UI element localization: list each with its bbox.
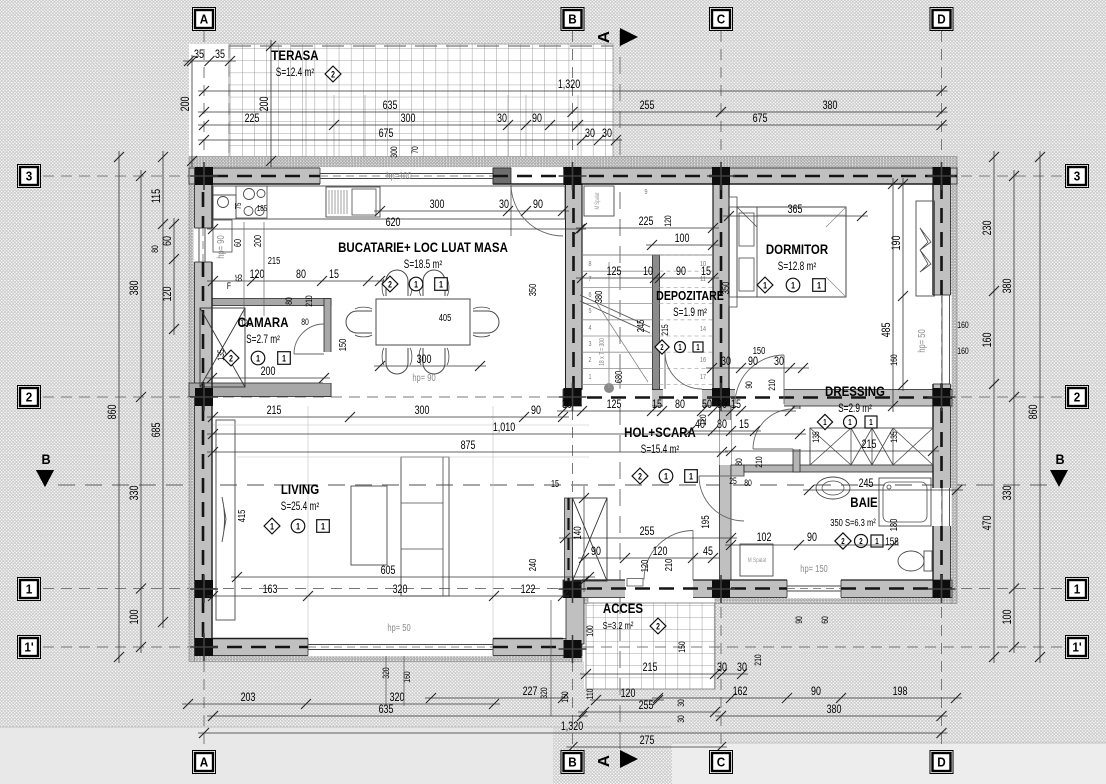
svg-text:675: 675 [379, 127, 394, 141]
svg-text:90: 90 [532, 112, 542, 126]
svg-text:DEPOZITARE: DEPOZITARE [656, 289, 724, 303]
svg-text:1: 1 [296, 521, 300, 531]
svg-text:S=2.9 m²: S=2.9 m² [838, 403, 872, 416]
svg-text:120: 120 [663, 215, 673, 227]
svg-text:160: 160 [957, 320, 969, 330]
svg-text:1: 1 [823, 417, 826, 427]
svg-text:D: D [937, 755, 946, 770]
svg-text:1: 1 [321, 521, 325, 531]
svg-text:1: 1 [256, 353, 260, 363]
svg-text:DRESSING: DRESSING [825, 384, 885, 399]
svg-text:160: 160 [560, 691, 570, 703]
svg-text:17: 17 [700, 373, 706, 381]
svg-text:TERASA: TERASA [271, 48, 318, 63]
svg-text:80: 80 [734, 458, 744, 466]
svg-text:300: 300 [389, 146, 399, 158]
svg-text:160: 160 [889, 354, 899, 366]
svg-text:hp= 90: hp= 90 [412, 372, 435, 383]
svg-text:1: 1 [696, 344, 699, 352]
svg-text:F: F [227, 281, 231, 291]
svg-text:2: 2 [589, 356, 592, 364]
svg-text:30: 30 [499, 198, 509, 212]
svg-text:9: 9 [645, 188, 648, 196]
svg-text:80: 80 [284, 297, 294, 305]
svg-text:405: 405 [439, 312, 452, 323]
svg-text:350: 350 [527, 284, 538, 297]
svg-text:2: 2 [331, 69, 335, 79]
svg-text:45: 45 [703, 545, 713, 559]
svg-text:1: 1 [689, 471, 693, 481]
svg-text:30: 30 [676, 699, 686, 707]
svg-text:M Spalat: M Spalat [594, 192, 601, 209]
svg-text:1: 1 [282, 353, 286, 363]
svg-text:35: 35 [194, 48, 204, 62]
svg-text:3: 3 [589, 340, 592, 348]
svg-text:160: 160 [402, 671, 412, 683]
svg-text:300: 300 [417, 353, 432, 367]
svg-text:A: A [595, 31, 613, 43]
svg-text:320: 320 [393, 583, 408, 597]
svg-text:380: 380 [593, 291, 604, 304]
svg-text:135: 135 [811, 431, 821, 443]
svg-text:1: 1 [817, 280, 821, 290]
svg-text:30: 30 [774, 355, 784, 369]
svg-text:C: C [717, 755, 726, 770]
svg-text:S=3.2 m²: S=3.2 m² [603, 620, 634, 631]
svg-text:100: 100 [585, 625, 595, 637]
svg-text:300: 300 [430, 198, 445, 212]
svg-text:D: D [937, 12, 946, 27]
svg-text:60: 60 [232, 239, 243, 247]
svg-text:215: 215 [267, 404, 282, 418]
svg-text:A: A [595, 755, 613, 767]
svg-text:1: 1 [791, 280, 795, 290]
svg-text:hp= 90: hp= 90 [215, 235, 226, 258]
svg-text:685: 685 [150, 423, 164, 438]
svg-text:330: 330 [128, 486, 142, 501]
svg-text:470: 470 [981, 516, 995, 531]
svg-text:60: 60 [161, 236, 175, 246]
svg-text:180: 180 [888, 519, 899, 532]
svg-text:S=25.4 m²: S=25.4 m² [281, 501, 320, 514]
svg-text:120: 120 [240, 318, 252, 328]
svg-text:200: 200 [252, 235, 263, 247]
svg-text:350: 350 [720, 282, 731, 295]
svg-text:160: 160 [957, 346, 969, 356]
svg-text:15: 15 [739, 418, 749, 432]
svg-text:2: 2 [229, 353, 233, 363]
svg-text:B: B [1055, 451, 1064, 467]
svg-text:198: 198 [893, 685, 908, 699]
svg-text:80: 80 [150, 245, 160, 253]
svg-text:245: 245 [859, 477, 874, 491]
svg-text:255: 255 [640, 99, 655, 113]
svg-text:16: 16 [700, 356, 706, 364]
svg-text:210: 210 [663, 559, 674, 572]
svg-text:380: 380 [1001, 279, 1015, 294]
svg-text:1: 1 [439, 279, 443, 289]
svg-text:1: 1 [270, 521, 274, 531]
svg-text:A: A [200, 12, 209, 27]
svg-text:1,320: 1,320 [561, 720, 583, 734]
svg-text:1,320: 1,320 [558, 78, 580, 92]
svg-text:150: 150 [677, 641, 687, 653]
svg-text:1: 1 [869, 417, 872, 427]
svg-text:1: 1 [589, 373, 592, 381]
svg-text:30: 30 [585, 127, 595, 141]
svg-text:90: 90 [748, 355, 758, 369]
svg-text:S=2.7 m²: S=2.7 m² [246, 334, 280, 347]
svg-text:90: 90 [811, 685, 821, 699]
svg-text:275: 275 [640, 734, 655, 748]
svg-text:195: 195 [700, 515, 713, 528]
svg-text:BAIE: BAIE [850, 495, 877, 510]
svg-text:C: C [717, 12, 726, 27]
svg-text:10: 10 [643, 265, 653, 279]
svg-text:30: 30 [562, 398, 572, 412]
svg-text:380: 380 [128, 281, 142, 296]
svg-text:380: 380 [827, 703, 842, 717]
svg-text:A: A [200, 755, 209, 770]
svg-text:200: 200 [179, 97, 193, 112]
svg-text:203: 203 [241, 691, 256, 705]
svg-text:1: 1 [26, 582, 33, 597]
svg-text:70: 70 [410, 146, 420, 154]
svg-text:90: 90 [531, 404, 541, 418]
svg-text:BUCATARIE+ LOC LUAT MASA: BUCATARIE+ LOC LUAT MASA [338, 240, 508, 255]
svg-text:S=18.5 m²: S=18.5 m² [404, 259, 443, 272]
svg-text:150: 150 [753, 345, 766, 356]
svg-text:S=12.8 m²: S=12.8 m² [778, 261, 817, 274]
svg-text:320: 320 [539, 687, 549, 699]
svg-text:125: 125 [607, 398, 622, 412]
svg-text:30: 30 [717, 661, 727, 675]
svg-text:S=15.4 m²: S=15.4 m² [641, 444, 680, 457]
svg-text:185: 185 [257, 203, 267, 213]
svg-text:90: 90 [717, 398, 727, 412]
svg-text:365: 365 [788, 203, 803, 217]
svg-text:200: 200 [261, 365, 276, 379]
svg-text:215: 215 [660, 324, 670, 336]
svg-text:35: 35 [215, 48, 225, 62]
svg-text:255: 255 [640, 525, 655, 539]
svg-text:380: 380 [823, 99, 838, 113]
svg-text:240: 240 [527, 559, 538, 572]
svg-text:120: 120 [698, 414, 708, 426]
svg-text:1': 1' [24, 640, 33, 655]
svg-text:210: 210 [753, 654, 763, 666]
svg-text:120: 120 [639, 560, 650, 573]
svg-text:ACCES: ACCES [603, 601, 643, 616]
svg-text:6: 6 [589, 291, 592, 299]
svg-text:120: 120 [250, 268, 265, 282]
svg-text:90: 90 [676, 265, 686, 279]
svg-text:210: 210 [767, 379, 777, 391]
svg-text:1': 1' [1072, 640, 1081, 655]
svg-text:190: 190 [890, 236, 904, 251]
svg-text:605: 605 [381, 564, 396, 578]
svg-text:15: 15 [731, 398, 741, 412]
svg-text:330: 330 [1001, 486, 1015, 501]
svg-text:75: 75 [233, 203, 243, 210]
svg-text:415: 415 [236, 510, 247, 523]
svg-text:300: 300 [415, 404, 430, 418]
svg-text:2: 2 [638, 471, 642, 481]
svg-text:15: 15 [652, 398, 662, 412]
svg-text:300: 300 [401, 112, 416, 126]
svg-text:90: 90 [794, 616, 804, 624]
svg-text:HOL+SCARA: HOL+SCARA [624, 425, 696, 440]
svg-text:2: 2 [1074, 390, 1081, 405]
svg-text:135: 135 [216, 349, 226, 361]
svg-text:215: 215 [643, 661, 658, 675]
svg-text:1: 1 [678, 344, 681, 352]
svg-text:60: 60 [820, 616, 830, 624]
svg-text:15: 15 [551, 478, 559, 489]
svg-text:1: 1 [763, 280, 767, 290]
svg-text:635: 635 [383, 99, 398, 113]
svg-text:125: 125 [607, 265, 622, 279]
svg-text:875: 875 [461, 439, 476, 453]
svg-text:B: B [41, 451, 50, 467]
svg-text:90: 90 [591, 545, 601, 559]
svg-text:210: 210 [304, 295, 314, 307]
svg-text:hp=100: hp=100 [386, 170, 411, 181]
svg-text:210: 210 [754, 456, 764, 468]
svg-text:2: 2 [26, 390, 33, 405]
svg-text:255: 255 [639, 699, 654, 713]
svg-text:80: 80 [296, 268, 306, 282]
svg-text:227: 227 [523, 685, 538, 699]
svg-text:30: 30 [676, 715, 686, 723]
svg-text:100: 100 [675, 232, 690, 246]
svg-text:30: 30 [602, 127, 612, 141]
svg-text:B: B [568, 755, 577, 770]
svg-text:100: 100 [128, 610, 142, 625]
svg-text:S=12.4 m²: S=12.4 m² [276, 67, 315, 80]
svg-text:50: 50 [702, 398, 712, 412]
svg-text:1: 1 [664, 471, 668, 481]
svg-text:860: 860 [106, 405, 120, 420]
svg-text:1: 1 [414, 279, 418, 289]
svg-text:30: 30 [721, 355, 731, 369]
svg-text:7: 7 [589, 275, 592, 283]
svg-text:90: 90 [807, 531, 817, 545]
svg-text:hp= 50: hp= 50 [916, 329, 927, 352]
svg-text:25: 25 [729, 476, 737, 486]
svg-text:90: 90 [533, 198, 543, 212]
svg-text:DORMITOR: DORMITOR [766, 242, 828, 257]
svg-text:680: 680 [613, 371, 624, 384]
svg-text:4: 4 [589, 324, 592, 332]
svg-text:860: 860 [1027, 405, 1041, 420]
svg-text:1: 1 [848, 417, 851, 427]
svg-text:15: 15 [329, 268, 339, 282]
svg-text:1,010: 1,010 [493, 421, 515, 435]
svg-text:18 x 7 = 300: 18 x 7 = 300 [598, 338, 606, 366]
svg-text:163: 163 [263, 583, 278, 597]
svg-text:3: 3 [26, 169, 33, 184]
svg-text:15: 15 [701, 265, 711, 279]
svg-text:2: 2 [660, 344, 663, 352]
svg-text:115: 115 [150, 189, 164, 203]
svg-text:162: 162 [733, 685, 748, 699]
svg-text:120: 120 [653, 545, 668, 559]
svg-text:122: 122 [521, 583, 536, 597]
svg-text:120: 120 [161, 287, 175, 302]
svg-text:2: 2 [656, 621, 660, 631]
svg-text:230: 230 [981, 221, 995, 236]
svg-text:S=1.9 m²: S=1.9 m² [673, 307, 707, 320]
svg-text:102: 102 [757, 531, 772, 545]
svg-text:1: 1 [1074, 582, 1081, 597]
svg-text:30: 30 [497, 112, 507, 126]
svg-text:8: 8 [589, 260, 592, 268]
svg-text:160: 160 [981, 333, 995, 348]
svg-text:65: 65 [234, 274, 244, 282]
svg-text:80: 80 [675, 398, 685, 412]
svg-text:30: 30 [737, 661, 747, 675]
svg-text:LIVING: LIVING [281, 482, 319, 497]
svg-text:5: 5 [589, 307, 592, 315]
svg-text:hp= 150: hp= 150 [800, 563, 827, 574]
svg-text:2: 2 [388, 279, 392, 289]
svg-text:3: 3 [1074, 169, 1081, 184]
svg-text:215: 215 [862, 438, 877, 452]
svg-text:100: 100 [1001, 610, 1015, 625]
svg-text:M Spalat: M Spalat [748, 557, 767, 564]
svg-text:350 S=6.3 m²: 350 S=6.3 m² [830, 517, 875, 528]
svg-text:215: 215 [268, 255, 281, 266]
svg-text:150: 150 [337, 339, 348, 352]
svg-text:hp= 50: hp= 50 [387, 622, 410, 633]
svg-text:620: 620 [386, 216, 401, 230]
svg-text:80: 80 [301, 317, 309, 327]
svg-text:135: 135 [889, 431, 899, 443]
svg-text:80: 80 [717, 418, 727, 432]
svg-text:225: 225 [639, 215, 654, 229]
svg-text:120: 120 [621, 687, 636, 701]
svg-text:485: 485 [880, 323, 894, 338]
svg-text:675: 675 [753, 112, 768, 126]
svg-text:200: 200 [258, 97, 272, 112]
svg-text:245: 245 [635, 320, 646, 333]
svg-text:225: 225 [245, 112, 260, 126]
svg-text:110: 110 [585, 688, 595, 699]
svg-text:B: B [568, 12, 577, 27]
svg-text:80: 80 [744, 478, 752, 488]
svg-text:14: 14 [700, 325, 706, 333]
svg-text:90: 90 [744, 381, 754, 389]
